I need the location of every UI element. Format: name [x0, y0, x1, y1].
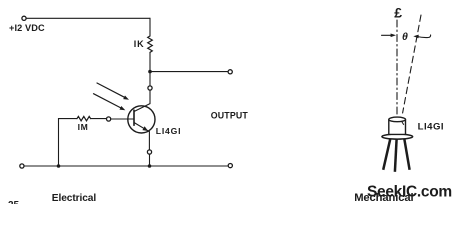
can flange	[382, 134, 413, 139]
resistor R2 1M	[77, 116, 91, 120]
terminal bottom right	[228, 164, 232, 168]
svg-text:Mechanical: Mechanical	[354, 192, 413, 204]
leg left	[383, 139, 390, 170]
base lead wire	[111, 118, 134, 120]
dashed axis line	[403, 15, 421, 113]
junction dot emitter rail	[148, 164, 152, 168]
base terminal circle	[107, 117, 111, 121]
light arrow 2	[94, 94, 126, 111]
svg-text:OUTPUT: OUTPUT	[211, 110, 249, 120]
leg middle	[395, 139, 397, 172]
wire emitter down	[148, 132, 150, 150]
wire emitter to rail	[149, 154, 151, 166]
svg-text:LI4GI: LI4GI	[156, 126, 182, 136]
terminal output top	[228, 70, 232, 74]
centerline dash-dot	[396, 20, 398, 116]
phototransistor Q1 L14G1	[128, 104, 155, 133]
junction dot output node	[148, 70, 152, 74]
collector terminal circle	[148, 86, 152, 90]
svg-text:25: 25	[8, 200, 20, 204]
terminal +12VDC input	[22, 16, 26, 20]
junction dot left rail	[57, 164, 61, 168]
svg-text:θ: θ	[402, 31, 408, 43]
emitter terminal circle	[147, 150, 151, 154]
can top ellipse	[389, 117, 406, 122]
light arrow 1	[97, 83, 129, 100]
wire output top	[150, 71, 228, 73]
wire top supply	[26, 17, 150, 19]
leg right	[404, 139, 409, 170]
svg-text:£: £	[394, 5, 402, 21]
svg-text:LI4GI: LI4GI	[418, 122, 445, 133]
svg-text:+I2 VDC: +I2 VDC	[9, 23, 45, 33]
left dimension arrow	[382, 34, 393, 36]
can body	[389, 119, 406, 134]
can shading tick	[402, 122, 404, 125]
resistor R1 1K	[148, 36, 153, 52]
wire 1M to base	[91, 118, 107, 120]
wire left branch down	[58, 119, 60, 166]
terminal bottom left	[20, 164, 24, 168]
wire to 1M resistor	[59, 118, 78, 120]
bottom rail wire	[24, 165, 228, 167]
right dimension arrow	[416, 35, 430, 38]
svg-text:IK: IK	[134, 39, 145, 49]
svg-text:Electrical: Electrical	[52, 193, 97, 204]
transistor can mechanical	[382, 117, 413, 172]
wire to resistor	[149, 18, 151, 36]
svg-text:IM: IM	[78, 122, 89, 132]
wire collector	[149, 90, 151, 104]
wire resistor to collector node	[149, 52, 151, 86]
